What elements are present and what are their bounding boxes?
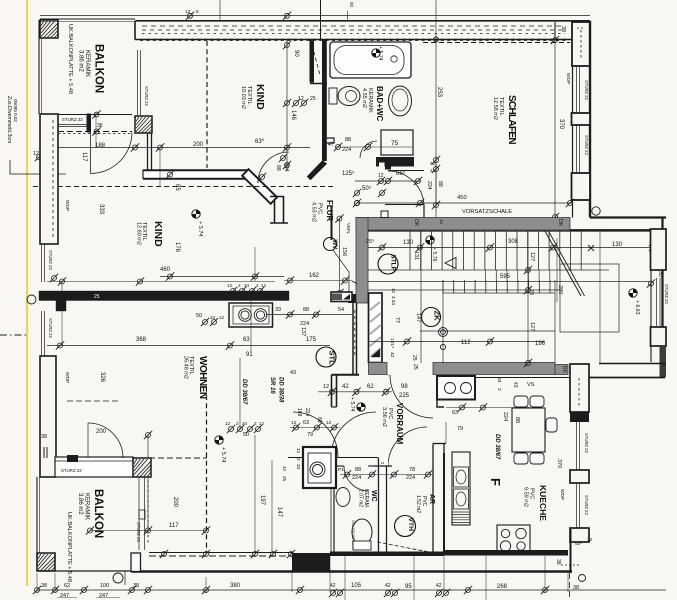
hatched pier C: [133, 458, 151, 477]
right wall inner line: [572, 66, 574, 218]
svg-text:9.59 m2: 9.59 m2: [523, 487, 529, 507]
svg-text:4.53 m2: 4.53 m2: [311, 202, 317, 222]
svg-text:12: 12: [219, 315, 225, 320]
gray wall stair bottom: [433, 363, 555, 375]
svg-text:225: 225: [399, 393, 410, 399]
balcony lower edge line: [58, 114, 132, 116]
svg-text:WDP: WDP: [559, 489, 565, 500]
door threshold dark: [67, 455, 78, 462]
stair landing line 3: [368, 289, 560, 291]
svg-text:BALKON: BALKON: [92, 489, 104, 538]
door arc vorraum-wohnen leaf 2: [331, 412, 376, 457]
hob ring: [517, 542, 525, 550]
long dashed line horizontal: [33, 186, 333, 188]
dining table: [512, 408, 545, 452]
svg-text:127: 127: [529, 252, 535, 261]
dim line 12-42-62: [318, 391, 392, 393]
svg-text:+ 5.74: + 5.74: [220, 447, 226, 462]
symbol circle WV: [324, 238, 337, 251]
top wall outer line: [135, 20, 590, 22]
dim line 460: [160, 276, 284, 278]
svg-text:450: 450: [457, 195, 467, 201]
divider wall top: [143, 169, 249, 171]
section dash-dot line left: [0, 334, 27, 336]
apartment wall at stair left: [352, 303, 354, 375]
svg-text:KUECHE: KUECHE: [538, 485, 548, 521]
svg-text:38: 38: [41, 434, 47, 440]
schlafen door arc: [388, 171, 424, 207]
hatch smudge: [370, 302, 381, 356]
hatched pier top-left balcony: [40, 20, 58, 38]
stair top inner line: [570, 229, 652, 231]
svg-text:43: 43: [512, 382, 518, 388]
svg-text:370: 370: [558, 119, 564, 130]
svg-text:P1: P1: [338, 467, 344, 473]
hatched pier bottom balcony: [37, 553, 55, 571]
svg-text:326: 326: [99, 372, 105, 383]
height mark bath: [372, 49, 380, 57]
flur top line: [385, 204, 424, 206]
ext line x545: [544, 556, 546, 592]
balcony-bottom left edge: [36, 477, 38, 571]
divider wall fill: [143, 170, 248, 179]
dim line 368: [47, 345, 330, 347]
svg-text:STURZ 22: STURZ 22: [61, 468, 82, 473]
svg-text:12.60 m2: 12.60 m2: [136, 222, 142, 245]
svg-text:DK: DK: [561, 366, 567, 374]
svg-text:62: 62: [367, 384, 374, 390]
svg-text:12: 12: [296, 448, 301, 454]
svg-text:DD 38/38: DD 38/38: [278, 377, 284, 403]
svg-text:2: 2: [256, 283, 259, 288]
ext line x292: [291, 572, 293, 592]
svg-text:+ 5.74: + 5.74: [349, 397, 355, 412]
flur corner wall line 2: [283, 196, 285, 223]
svg-text:STURZ 22: STURZ 22: [136, 522, 141, 542]
vorraum top wall left of entrance: [332, 374, 360, 376]
kitchen right pillar top: [570, 364, 589, 412]
door arc wohnen-balcony: [88, 423, 123, 458]
wall block south-middle: [292, 553, 330, 572]
svg-text:25: 25: [94, 294, 100, 300]
svg-text:12: 12: [430, 168, 436, 173]
height mark wohnen: [215, 436, 223, 444]
gray block left of entrance door: [369, 363, 388, 375]
stair bottom right line 1: [599, 363, 666, 365]
svg-text:SR 16: SR 16: [269, 377, 275, 394]
tiny vert line top: [347, 11, 349, 21]
circle below kitchen corner: [579, 575, 586, 582]
left wall pillar 1: [40, 114, 58, 244]
flue dashed diagonal: [312, 45, 320, 75]
hob ring: [516, 528, 526, 538]
right wall pillar 2: [572, 173, 591, 200]
svg-text:2: 2: [296, 458, 301, 461]
svg-text:162: 162: [309, 273, 320, 279]
ext line x330: [329, 556, 331, 592]
svg-text:370: 370: [556, 459, 562, 468]
svg-text:AR: AR: [428, 494, 435, 504]
top wall band fill: [135, 21, 572, 40]
svg-text:200: 200: [193, 142, 204, 148]
symbol circle ZK: [422, 308, 442, 327]
svg-text:12: 12: [326, 420, 332, 426]
right wall pillar 1: [572, 113, 591, 125]
svg-text:247: 247: [99, 593, 108, 599]
svg-text:KERAMIK: KERAMIK: [84, 493, 90, 520]
door jamb stub: [87, 114, 91, 132]
balcony top edge: [40, 18, 135, 20]
svg-text:130: 130: [612, 242, 623, 248]
door arc balcony to kind: [91, 133, 133, 174]
svg-text:2: 2: [254, 421, 257, 426]
wc door arc: [344, 466, 369, 491]
svg-text:25⁵: 25⁵: [366, 238, 374, 245]
svg-text:12: 12: [323, 384, 329, 390]
svg-text:38: 38: [555, 559, 561, 565]
svg-text:3.86 m2: 3.86 m2: [78, 50, 84, 72]
dim vert stair left: [420, 231, 422, 363]
shaft circle 1: [445, 383, 456, 394]
svg-text:63: 63: [243, 337, 250, 343]
small circle stair 2: [440, 344, 445, 349]
svg-text:125⁵: 125⁵: [342, 170, 355, 177]
balcony window right 1: [138, 477, 140, 550]
shaft circle 2: [461, 383, 472, 394]
wall inner dash row 1: [142, 25, 565, 27]
svg-text:12: 12: [282, 466, 287, 472]
left window 2: [41, 311, 43, 356]
svg-text:50: 50: [240, 296, 246, 302]
ext line top 436: [435, 0, 437, 40]
svg-text:63: 63: [452, 410, 458, 416]
svg-text:34: 34: [244, 283, 250, 288]
corner pillar top-right: [572, 22, 590, 66]
circle bottom-left: [113, 573, 123, 583]
door arc vorraum-wohnen leaf 1: [293, 412, 338, 457]
wc-ar wall T: [374, 465, 392, 467]
svg-text:224: 224: [283, 163, 289, 172]
svg-text:3.56 m2: 3.56 m2: [381, 407, 387, 427]
symbol circle STL: [316, 347, 337, 367]
wohnen sliding door dashes: [149, 555, 292, 557]
diamond ticks 130: [588, 245, 655, 251]
hatch triangle: [371, 349, 380, 357]
svg-text:253: 253: [436, 87, 442, 98]
leader line from margin note: [10, 160, 66, 174]
svg-text:77: 77: [394, 317, 400, 323]
svg-text:91: 91: [246, 352, 253, 358]
threshold dashes balcony door: [58, 131, 132, 133]
door arc vorraum right: [388, 427, 427, 466]
sink basin 1: [454, 467, 469, 487]
svg-text:UK.BALKONPLATTE + 5.48: UK.BALKONPLATTE + 5.48: [66, 512, 72, 582]
wc-ar wall line 2: [386, 466, 388, 552]
svg-text:2: 2: [496, 388, 502, 391]
svg-text:200: 200: [172, 497, 178, 508]
svg-text:STURZ 22: STURZ 22: [48, 250, 53, 270]
svg-text:1.52 m2: 1.52 m2: [415, 495, 421, 513]
svg-text:50⁵: 50⁵: [362, 185, 372, 192]
svg-text:42: 42: [436, 583, 442, 589]
svg-text:127: 127: [529, 322, 535, 331]
svg-text:34: 34: [242, 421, 248, 426]
svg-text:WC: WC: [370, 490, 377, 502]
symbol circle STLP: [378, 254, 398, 274]
stair void box right: [560, 264, 619, 332]
wc sink: [336, 488, 350, 507]
svg-text:43: 43: [290, 370, 296, 376]
top thin dim line: [40, 15, 590, 17]
svg-text:WDP: WDP: [64, 372, 70, 383]
window glazing right 2: [576, 125, 578, 173]
height mark stair +6.63: [629, 289, 637, 297]
niche window sill dark box: [331, 292, 352, 302]
flue wall joint: [310, 83, 327, 85]
stair right pillar 2: [651, 327, 667, 346]
bath door arc: [360, 141, 377, 158]
svg-text:WOHNEN: WOHNEN: [197, 356, 208, 399]
svg-text:50: 50: [196, 313, 202, 319]
svg-text:+ 5.74: + 5.74: [197, 221, 203, 236]
svg-text:79: 79: [307, 432, 313, 438]
svg-text:STURZ 22: STURZ 22: [62, 117, 83, 122]
niche wall left: [331, 206, 333, 240]
stair bottom right line 2: [588, 377, 665, 379]
svg-text:130: 130: [403, 240, 414, 246]
svg-text:STURZ 22: STURZ 22: [584, 495, 589, 515]
dim line schlafen right: [554, 40, 556, 218]
svg-text:224: 224: [426, 181, 432, 190]
basin oval 1: [456, 470, 466, 484]
svg-text:224: 224: [304, 408, 310, 417]
svg-text:90: 90: [293, 50, 299, 57]
wc-ar bottom wall: [330, 552, 444, 557]
window handle box: [139, 510, 145, 519]
svg-text:WV: WV: [331, 240, 337, 250]
wall inner dash row 1b: [142, 29, 565, 31]
dim line kind top: [286, 40, 288, 171]
svg-text:STLP: STLP: [390, 255, 397, 272]
entrance door arc: [390, 375, 433, 418]
svg-text:3.86 m2: 3.86 m2: [77, 493, 83, 515]
stub 47: [324, 138, 334, 143]
kitchen corner wall vertical: [570, 529, 572, 573]
long dashed section line vertical lower: [206, 395, 208, 552]
svg-text:101⁵: 101⁵: [389, 338, 395, 348]
svg-text:78: 78: [409, 467, 415, 473]
svg-text:VTH: VTH: [407, 518, 414, 532]
svg-text:VS: VS: [527, 382, 535, 388]
stair right pillar 1: [651, 229, 667, 270]
svg-text:KIND: KIND: [254, 84, 266, 110]
svg-text:25: 25: [310, 96, 316, 102]
stair diagonal direction line: [545, 231, 581, 296]
svg-text:42: 42: [342, 384, 349, 390]
flur wall top cap: [270, 196, 284, 198]
svg-text:4.55 m2: 4.55 m2: [361, 88, 367, 108]
svg-text:VBPL: VBPL: [346, 223, 351, 235]
dim line stair top: [368, 247, 652, 249]
long dashed section line vertical upper: [206, 41, 208, 168]
wc top wall: [336, 457, 378, 459]
svg-text:2: 2: [236, 421, 239, 426]
hatched stair wall box: [369, 293, 383, 363]
chamfer wall corner bath door: [307, 161, 327, 181]
svg-text:75: 75: [391, 140, 399, 147]
svg-text:88: 88: [514, 417, 520, 423]
svg-text:33: 33: [275, 307, 281, 313]
svg-text:63⁰: 63⁰: [255, 138, 265, 145]
svg-text:62: 62: [64, 583, 70, 589]
kitchen right pillar mid: [570, 470, 589, 483]
svg-text:460: 460: [160, 267, 171, 273]
svg-text:12: 12: [225, 421, 231, 426]
svg-text:12: 12: [33, 151, 39, 157]
svg-text:38: 38: [41, 583, 47, 589]
level circle on left wall: [27, 295, 36, 304]
svg-text:117: 117: [169, 523, 179, 529]
drainer lines: [453, 512, 470, 522]
svg-text:368: 368: [136, 337, 147, 343]
dashed line to bottom edge: [569, 573, 571, 600]
height mark stair +5.76: [426, 236, 434, 244]
svg-text:176: 176: [174, 242, 180, 253]
kitchen top line: [475, 377, 570, 379]
height mark vorraum: [357, 403, 365, 411]
svg-text:12: 12: [227, 283, 233, 288]
svg-text:12: 12: [587, 537, 593, 543]
dim vert stair mid: [527, 231, 529, 363]
gray wall stair left: [356, 218, 368, 304]
svg-text:BALKON: BALKON: [93, 44, 105, 93]
svg-text:KERAMIK: KERAMIK: [84, 50, 90, 77]
bath wall step: [385, 165, 391, 170]
svg-text:STURZ 22: STURZ 22: [144, 86, 149, 106]
shaft box at stair bottom: [437, 376, 475, 400]
right outer wall line: [589, 21, 591, 218]
shaft box tail: [437, 400, 444, 408]
svg-text:4.34: 4.34: [391, 296, 396, 305]
wall stub to gray band: [423, 205, 425, 218]
svg-text:FLUR: FLUR: [325, 200, 334, 222]
ext line x444: [443, 556, 445, 592]
south outer wall line: [131, 570, 572, 572]
kitchen window 1: [576, 422, 578, 470]
svg-text:12: 12: [391, 288, 396, 294]
svg-text:ZK: ZK: [433, 311, 442, 322]
svg-text:147: 147: [276, 507, 282, 518]
svg-text:UK.BALKONPLATTE + 5.48: UK.BALKONPLATTE + 5.48: [67, 24, 73, 94]
svg-text:112: 112: [461, 340, 471, 346]
svg-text:380: 380: [230, 583, 241, 589]
insulation dash top schlafen: [423, 42, 570, 44]
svg-text:DK: DK: [557, 219, 563, 227]
svg-text:88: 88: [355, 467, 361, 473]
height mark kind-mid: [192, 210, 200, 218]
wall between kind-mid and wohnen: [39, 291, 289, 311]
svg-text:SCHLAFEN: SCHLAFEN: [506, 95, 517, 144]
kitchen right pillar low: [570, 528, 589, 542]
bath wall notch: [379, 163, 385, 167]
svg-text:25: 25: [282, 476, 287, 482]
top wall hatch dashes: [140, 39, 568, 41]
kitchenette sink circle 1: [239, 309, 252, 322]
svg-text:224: 224: [352, 475, 361, 481]
right inner wall stair: [650, 231, 652, 362]
svg-text:38: 38: [560, 26, 566, 32]
svg-text:88: 88: [303, 307, 309, 313]
svg-text:42: 42: [385, 583, 391, 589]
svg-text:42: 42: [330, 583, 336, 589]
south wall end pillar: [131, 553, 141, 572]
svg-text:308: 308: [508, 239, 519, 245]
window glazing right 1: [576, 66, 578, 113]
bath bottom wall: [376, 157, 414, 167]
svg-text:88: 88: [275, 165, 281, 171]
svg-text:188: 188: [95, 143, 106, 149]
wc left wall: [333, 488, 335, 552]
svg-text:26.48 m2: 26.48 m2: [183, 356, 189, 379]
triangle marker stair: [445, 258, 456, 269]
svg-text:F: F: [488, 478, 503, 486]
svg-text:42: 42: [430, 161, 436, 166]
wc-ar wall line 1: [378, 458, 380, 553]
svg-text:63: 63: [303, 420, 309, 426]
svg-text:175: 175: [306, 337, 317, 343]
washbasin: [389, 86, 412, 116]
svg-text:224: 224: [300, 321, 309, 327]
sink basin 2: [454, 489, 469, 509]
white post in gray wall: [381, 211, 388, 218]
basin oval 2: [456, 492, 466, 506]
shower box 75: [381, 130, 413, 155]
svg-text:146: 146: [290, 110, 296, 121]
svg-text:88: 88: [437, 181, 443, 187]
svg-text:STURZ 22: STURZ 22: [584, 433, 589, 453]
dim line 156: [339, 219, 341, 296]
svg-text:100: 100: [100, 583, 109, 589]
svg-text:STURZ 22: STURZ 22: [584, 80, 589, 100]
svg-text:333: 333: [98, 204, 104, 215]
shaft box outer: [303, 447, 336, 488]
svg-text:25: 25: [411, 355, 417, 361]
ext line 96: [95, 112, 97, 147]
svg-text:197: 197: [259, 495, 265, 506]
door arc kind-top to flur: [258, 152, 289, 183]
svg-text:42: 42: [389, 352, 395, 358]
window glazing left kind-top: [137, 50, 139, 116]
svg-text:137: 137: [300, 327, 306, 336]
small circle at corner: [592, 207, 600, 215]
svg-text:224: 224: [406, 475, 415, 481]
stair treads mid segment: [486, 270, 550, 282]
svg-text:12.58 m2: 12.58 m2: [492, 97, 498, 120]
svg-text:54: 54: [338, 307, 344, 313]
dashed ceiling line wohnen: [67, 400, 120, 402]
vorraum left wall line: [331, 375, 333, 407]
dim vert line: [147, 435, 149, 530]
left window 1: [41, 244, 43, 282]
wall inner dash row 2: [142, 33, 565, 35]
svg-text:DK: DK: [413, 219, 419, 227]
svg-text:2: 2: [238, 283, 241, 288]
dim line 112/196: [368, 341, 545, 343]
svg-text:DD 38/67: DD 38/67: [241, 379, 247, 405]
wc toilet: [352, 519, 372, 550]
stair landing line 2: [368, 281, 650, 283]
dim line 450: [357, 202, 572, 204]
